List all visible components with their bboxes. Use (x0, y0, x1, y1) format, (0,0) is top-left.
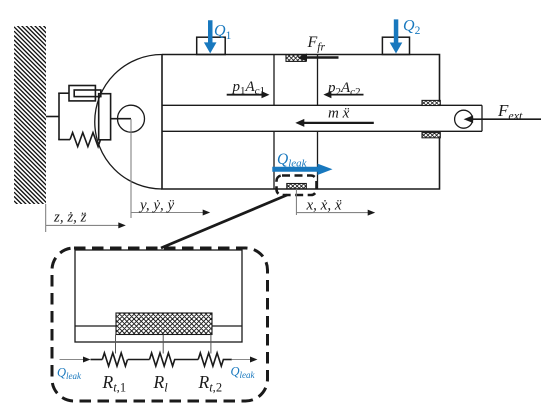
cylinder body outline (162, 55, 440, 190)
pin link wire (111, 118, 131, 120)
svg-text:Fext: Fext (497, 101, 523, 123)
damper top rail (58, 92, 69, 94)
svg-text:Q1: Q1 (214, 23, 232, 43)
y measurement tick (130, 119, 132, 218)
port 1 (197, 37, 226, 54)
spring-damper left bracket (58, 93, 60, 139)
rod right end (481, 105, 483, 131)
svg-text:Rl: Rl (153, 372, 169, 395)
wire (128, 359, 150, 361)
detail piston seal crosshatch (95, 313, 251, 335)
x measurement arrow (296, 212, 369, 214)
wire (223, 359, 232, 361)
connector R_t,1 (115, 335, 117, 354)
external force arrow F_ext (471, 118, 541, 120)
resistor R_l (150, 353, 175, 366)
mounting plate (99, 94, 111, 140)
zoom callout line (161, 195, 287, 248)
piston bottom seal (282, 184, 313, 189)
damper cylinder (69, 86, 95, 101)
piston top seal (279, 55, 316, 62)
wire (174, 359, 198, 361)
x measurement tick (295, 189, 297, 215)
rod gland seal bottom (417, 133, 448, 138)
y measurement arrow (131, 212, 205, 214)
rod bottom edge (162, 130, 482, 132)
leak arrow (272, 167, 317, 172)
svg-text:Rt,1: Rt,1 (102, 372, 127, 395)
z measurement arrow (46, 224, 120, 226)
resistor R_t,2 (198, 353, 223, 366)
inertia arrow m xdd (302, 122, 374, 124)
spring bottom rail (58, 139, 70, 141)
wire wall to damper bracket (46, 116, 59, 118)
pin joint circle (118, 105, 145, 132)
port 2 (382, 37, 409, 54)
cylinder rounded cap (95, 55, 162, 190)
svg-text:m ẍ: m ẍ (328, 106, 350, 122)
flow arrow Q1 (204, 20, 217, 53)
Q_leak outflow arrow (232, 359, 252, 361)
leak dashed box (277, 176, 317, 196)
wall (14, 0, 50, 237)
pressure arrow p1 (227, 94, 264, 96)
rod gland seal top (417, 100, 448, 105)
piston left edge (273, 55, 275, 190)
connector R_l (162, 335, 164, 354)
svg-text:Qleak: Qleak (57, 366, 82, 382)
svg-text:Q2: Q2 (403, 18, 421, 38)
svg-text:Ffr: Ffr (307, 34, 326, 54)
svg-text:Rt,2: Rt,2 (198, 372, 223, 395)
Q_leak inflow arrow (60, 359, 86, 361)
svg-text:x, ẋ, ẍ: x, ẋ, ẍ (306, 198, 342, 214)
detail view dashed frame (52, 248, 268, 401)
svg-text:Qleak: Qleak (231, 365, 256, 381)
resistor R_t,1 (102, 353, 127, 366)
friction force arrow F_fr (306, 56, 339, 59)
rod end circle (455, 110, 473, 128)
wire (91, 359, 103, 361)
rod top edge (162, 104, 482, 106)
svg-text:z, ż, z̈: z, ż, z̈ (53, 210, 87, 226)
svg-text:y, ẏ, ÿ: y, ẏ, ÿ (138, 198, 174, 214)
spring (70, 133, 100, 147)
damper piston (74, 90, 101, 97)
z measurement tick (45, 204, 47, 232)
detail cylinder block (75, 250, 242, 342)
detail gap line (75, 325, 242, 327)
pressure arrow p2 (330, 94, 364, 96)
piston right edge (317, 55, 319, 190)
flow arrow Q2 (390, 19, 403, 53)
connector R_t,2 (210, 335, 212, 354)
